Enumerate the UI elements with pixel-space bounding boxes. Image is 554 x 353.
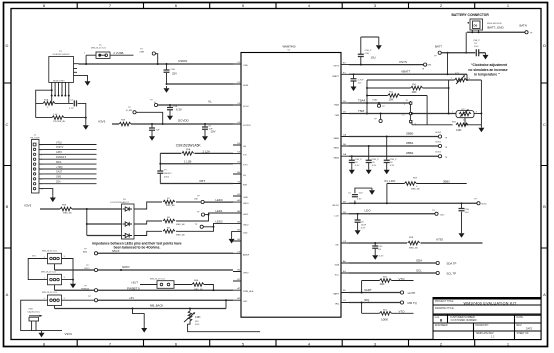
svg-text:GPIO: GPIO [56, 151, 62, 154]
svg-text:WM9T400: WM9T400 [283, 45, 296, 49]
svg-text:R5B: R5B [121, 120, 126, 122]
svg-text:2BB0: 2BB0 [406, 132, 414, 136]
svg-text:10V: 10V [358, 82, 362, 84]
svg-text:4.7UF: 4.7UF [358, 79, 365, 81]
svg-text:MBD_AV: MBD_AV [194, 288, 203, 291]
svg-text:+TRQ: +TRQ [56, 166, 63, 169]
svg-text:T5M: T5M [358, 109, 365, 113]
svg-text:PW5BT.0: PW5BT.0 [127, 287, 140, 291]
svg-text:MO: MO [195, 321, 199, 323]
svg-text:A: A [6, 292, 9, 297]
svg-text:CSDIN: CSDIN [178, 59, 187, 63]
svg-text:R5A: R5A [44, 99, 49, 102]
svg-text:BU51: BU51 [436, 142, 442, 144]
svg-text:D: D [543, 43, 546, 48]
svg-text:+5V: +5V [129, 296, 134, 300]
svg-text:2BB2: 2BB2 [443, 179, 450, 183]
svg-text:10U: 10U [465, 212, 469, 214]
svg-text:VL: VL [208, 100, 212, 104]
svg-text:V730: V730 [436, 238, 443, 242]
svg-text:BATTERY CONNECTOR: BATTERY CONNECTOR [452, 13, 490, 17]
svg-text:1UU: 1UU [474, 46, 479, 48]
svg-text:TSM: TSM [334, 115, 339, 117]
svg-text:been balanced to be 4Oohms.: been balanced to be 4Oohms. [114, 246, 161, 250]
svg-text:MW-2X-07-X-S: MW-2X-07-X-S [150, 279, 165, 281]
svg-text:R5T: R5T [200, 179, 206, 183]
svg-text:MC: MC [336, 245, 340, 247]
svg-text:C5B_P: C5B_P [365, 50, 372, 52]
svg-text:X5B: X5B [29, 308, 34, 310]
svg-text:SHEET OF:: SHEET OF: [517, 332, 530, 335]
svg-text:SDA: SDA [335, 264, 340, 267]
svg-text:SDA: SDA [416, 259, 422, 263]
svg-text:DA: DA [343, 153, 347, 156]
svg-text:V3V3: V3V3 [65, 332, 73, 336]
svg-text:V3V3: V3V3 [24, 204, 32, 208]
svg-text:N5CX: N5CX [112, 249, 120, 253]
svg-text:DATE:: DATE: [517, 316, 524, 319]
svg-text:6.3V: 6.3V [176, 108, 182, 112]
svg-text:VSYS: VSYS [333, 66, 339, 68]
svg-text:2 L2A: 2 L2A [203, 150, 210, 154]
svg-text:MBD_AV: MBD_AV [409, 246, 418, 249]
svg-text:T5A4: T5A4 [358, 99, 366, 103]
svg-text:10V: 10V [211, 130, 216, 134]
svg-text:MBD_AV: MBD_AV [411, 188, 420, 191]
svg-text:CS91523W1A5K: CS91523W1A5K [176, 144, 202, 148]
svg-text:C5B_P: C5B_P [355, 159, 362, 161]
svg-text:VART: VART [364, 288, 372, 292]
svg-text:DATE: DATE [526, 328, 533, 331]
svg-text:DB: DB [237, 172, 241, 174]
svg-text:C: C [6, 122, 9, 127]
svg-text:C5B_P: C5B_P [390, 159, 397, 161]
svg-text:V3V3: V3V3 [98, 120, 106, 124]
svg-text:R6B: R6B [194, 280, 199, 282]
svg-text:DRAWN BY:: DRAWN BY: [476, 324, 490, 327]
svg-text:VBATT: VBATT [401, 70, 411, 74]
svg-text:LRC: LRC [243, 301, 248, 303]
svg-text:CSB: CSB [243, 65, 248, 67]
svg-text:50%: 50% [195, 324, 199, 326]
svg-text:SBB1: SBB1 [333, 148, 339, 150]
svg-text:10UF: 10UF [361, 225, 367, 227]
svg-text:GM1: GM1 [56, 176, 62, 179]
svg-text:LED2: LED2 [216, 219, 223, 223]
svg-text:LED0: LED0 [243, 203, 249, 205]
svg-text:PWRDN: PWRDN [81, 289, 90, 291]
svg-text:1 L2B: 1 L2B [184, 160, 191, 164]
svg-text:MDA: MDA [56, 161, 62, 164]
svg-text:XTI: XTI [243, 154, 247, 156]
svg-text:BL50: BL50 [482, 204, 488, 206]
svg-text:10K: 10K [195, 315, 201, 319]
svg-text:CA-08-15CC: CA-08-15CC [28, 310, 41, 313]
svg-text:GND: GND [243, 197, 248, 199]
svg-text:B: B [6, 204, 9, 209]
svg-text:DCVDD: DCVDD [178, 119, 190, 123]
svg-text:6.3V: 6.3V [379, 256, 384, 258]
svg-text:C5B_P: C5B_P [372, 159, 379, 161]
svg-text:5TU: 5TU [32, 256, 37, 258]
svg-text:LND: LND [243, 233, 248, 235]
svg-text:D: D [6, 43, 9, 48]
svg-text:DCVDD: DCVDD [243, 125, 251, 127]
svg-text:2 VUSB: 2 VUSB [113, 51, 123, 55]
svg-text:LED0: LED0 [216, 198, 223, 202]
svg-text:IRQ: IRQ [364, 298, 370, 302]
svg-text:10UF592-0401LF: 10UF592-0401LF [52, 54, 70, 56]
svg-text:C: C [543, 122, 546, 127]
svg-text:C5B_P: C5B_P [473, 40, 480, 42]
svg-text:5D: 5D [343, 290, 346, 292]
svg-text:A: A [543, 292, 546, 297]
svg-text:T5A0: T5A0 [372, 99, 378, 102]
svg-text:MB_BACK: MB_BACK [150, 304, 164, 308]
svg-text:SBB0: SBB0 [333, 138, 339, 140]
svg-text:DA: DA [343, 134, 347, 137]
svg-text:6.3V: 6.3V [361, 228, 366, 230]
svg-text:+3UT: +3UT [131, 281, 138, 285]
svg-text:MBD_AV: MBD_AV [63, 212, 72, 215]
svg-text:LDO: LDO [335, 215, 340, 217]
svg-text:10K: 10K [380, 282, 385, 286]
svg-text:2BB2: 2BB2 [406, 151, 414, 155]
svg-text:5B0012: 5B0012 [164, 173, 172, 175]
svg-text:MW-2X-07-X-S: MW-2X-07-X-S [41, 271, 56, 273]
svg-text:INLDO: INLDO [332, 205, 339, 207]
svg-text:MW-2X-07-X-S: MW-2X-07-X-S [42, 250, 57, 252]
svg-text:MBD_AV: MBD_AV [166, 204, 175, 207]
svg-text:xxxTP: xxxTP [408, 291, 416, 295]
svg-text:MW-2X-07-X-S: MW-2X-07-X-S [42, 292, 57, 294]
svg-text:DVDD2.5: DVDD2.5 [56, 156, 67, 159]
svg-text:“Clockwise adjustment: “Clockwise adjustment [471, 63, 508, 67]
svg-text:BATN: BATN [520, 24, 527, 28]
svg-text:IBATT_GND: IBATT_GND [487, 25, 504, 29]
svg-text:AWLR: AWLR [243, 253, 250, 256]
svg-text:6.3V: 6.3V [355, 165, 360, 167]
svg-text:SDIN: SDIN [243, 85, 249, 87]
svg-text:MM: MM [428, 65, 432, 67]
svg-text:10K: 10K [412, 90, 417, 94]
svg-text:PROJECT TITLE:: PROJECT TITLE: [435, 300, 454, 303]
svg-text:BU50: BU50 [436, 132, 442, 134]
svg-text:in temperature ”: in temperature ” [474, 73, 500, 77]
svg-text:SCL: SCL [416, 269, 422, 273]
svg-text:GPIO: GPIO [84, 268, 90, 270]
svg-text:LED1: LED1 [243, 214, 249, 216]
svg-text:VSYS: VSYS [399, 60, 407, 64]
svg-text:135.60R_AV: 135.60R_AV [53, 120, 66, 123]
svg-text:4.7P: 4.7P [69, 108, 74, 110]
svg-text:BU52: BU52 [436, 152, 442, 154]
svg-text:4X02: 4X02 [164, 176, 170, 178]
svg-text:C5B: C5B [465, 209, 470, 211]
svg-text:10U: 10U [371, 55, 376, 59]
svg-text:MM TQ: MM TQ [408, 301, 418, 305]
svg-text:14-SOIC6W-A5L57: 14-SOIC6W-A5L57 [110, 201, 130, 204]
svg-text:3V3TV: 3V3TV [56, 146, 64, 149]
svg-text:IN_LDO: IN_LDO [385, 179, 397, 183]
svg-text:GA2T: GA2T [56, 171, 63, 174]
svg-text:GPIO: GPIO [243, 273, 249, 275]
svg-text:LED1: LED1 [216, 209, 223, 213]
svg-text:SDA TP: SDA TP [447, 261, 457, 265]
svg-text:XTO: XTO [243, 165, 248, 167]
svg-text:IRQ: IRQ [335, 304, 339, 306]
svg-text:TSA4: TSA4 [334, 104, 340, 107]
svg-text:D0: D0 [474, 24, 478, 28]
svg-text:B: B [543, 204, 546, 209]
svg-text:PWR_ALE: PWR_ALE [243, 290, 254, 293]
svg-text:R5B: R5B [409, 237, 414, 239]
svg-text:10K: 10K [456, 128, 462, 132]
svg-text:WM97400 EVALUATION KIT: WM97400 EVALUATION KIT [464, 301, 517, 305]
svg-text:UART: UART [333, 293, 340, 296]
svg-text:VT10: VT10 [56, 141, 62, 144]
svg-text:R_MB: R_MB [126, 110, 133, 112]
svg-text:V7O: V7O [399, 277, 406, 281]
svg-text:MBD_AV: MBD_AV [176, 223, 185, 226]
svg-text:6.3V: 6.3V [357, 199, 362, 201]
svg-text:10K: 10K [389, 97, 394, 101]
svg-text:LED2: LED2 [243, 224, 249, 226]
svg-text:ENGINEER:: ENGINEER: [435, 324, 448, 327]
svg-text:VBATT: VBATT [332, 75, 340, 78]
svg-text:<CUSTOMER NUMBER>: <CUSTOMER NUMBER> [450, 319, 478, 322]
svg-text:MBD_AV: MBD_AV [176, 233, 185, 236]
svg-text:6.3V: 6.3V [390, 165, 395, 167]
svg-text:GPIO: GPIO [122, 265, 130, 269]
svg-text:R5A: R5A [186, 148, 191, 151]
svg-text:0MB: 0MB [140, 52, 145, 54]
svg-text:2DA: 2DA [56, 181, 61, 184]
svg-text:1UF: 1UF [156, 130, 161, 132]
svg-text:MODE-2 PMU: MODE-2 PMU [53, 80, 65, 82]
svg-text:6.3V: 6.3V [372, 165, 377, 167]
svg-text:100K: 100K [381, 317, 389, 321]
svg-text:R5B: R5B [62, 205, 67, 207]
svg-text:10U: 10U [359, 193, 363, 195]
svg-text:BATT: BATT [435, 44, 442, 48]
svg-text:25V: 25V [172, 72, 177, 76]
svg-text:LBO: LBO [440, 214, 445, 216]
svg-text:REV:: REV: [517, 324, 523, 327]
svg-text:MW-2X-07-X-S: MW-2X-07-X-S [91, 48, 106, 50]
svg-text:1.5K: 1.5K [53, 114, 58, 116]
svg-text:2BB1: 2BB1 [406, 141, 414, 145]
svg-text:C5B: C5B [365, 53, 370, 55]
svg-text:LDO: LDO [365, 208, 372, 212]
svg-text:no simulates an increase: no simulates an increase [468, 68, 507, 72]
svg-text:SBB2: SBB2 [333, 158, 339, 160]
svg-text:TM-10SH: TM-10SH [30, 137, 40, 139]
svg-text:SCL TP: SCL TP [447, 271, 457, 275]
svg-text:SCLK: SCLK [243, 106, 249, 108]
svg-text:RST: RST [243, 185, 248, 187]
svg-text:DRAWING TITLE:: DRAWING TITLE: [435, 307, 455, 310]
svg-text:V7O: V7O [399, 310, 406, 314]
